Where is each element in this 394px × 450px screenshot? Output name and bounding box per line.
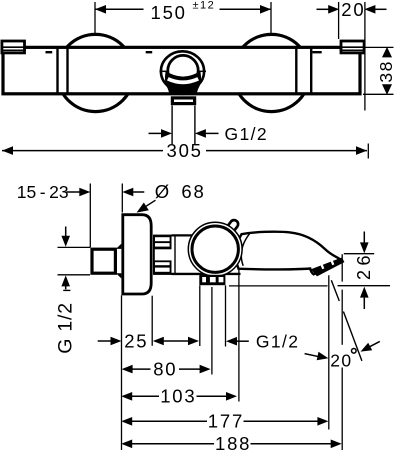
svg-text:20: 20 [330, 351, 352, 371]
valve body (side view) [172, 235, 248, 274]
dimension G1/2 (top view outlet) [149, 124, 269, 144]
G1/2 inlet dimension (left) [55, 227, 91, 354]
svg-text:20: 20 [341, 0, 365, 20]
mixer body bar (top view) [3, 47, 360, 93]
svg-text:G1/2: G1/2 [225, 124, 269, 144]
svg-text:103: 103 [160, 386, 196, 407]
svg-text:188: 188 [215, 433, 251, 450]
dimension 305 [2, 140, 368, 161]
spout aerator stripe band [311, 257, 344, 276]
wall union pipe [92, 249, 115, 273]
dimension 150 +-12 [95, 0, 271, 34]
center ring inner circle [168, 55, 198, 85]
outlet flange (top view) [172, 98, 194, 104]
svg-text:38: 38 [376, 60, 394, 82]
span arrow escutcheon to outlet [153, 337, 199, 346]
wall union pipe shoulder top [116, 244, 121, 249]
left rosette circle (top view) [57, 34, 134, 111]
extension line spout outlet (177) [328, 275, 330, 429]
svg-text:25: 25 [124, 331, 148, 352]
dimension 25 [98, 331, 149, 352]
hand shower outlet (aerator foot) [199, 275, 225, 285]
svg-text:80: 80 [153, 358, 177, 379]
escutcheon (side view) [123, 215, 151, 294]
left end cap box [1, 41, 26, 53]
extension line spout tip (188) [341, 254, 343, 450]
svg-text:150: 150 [151, 2, 187, 23]
seam dash center [146, 51, 153, 53]
angle 20 degrees [305, 280, 380, 370]
extension line outlet left [199, 285, 201, 346]
dimension diameter 38 [363, 47, 394, 95]
escutcheon edge extension line [121, 295, 123, 450]
ring cut line left [160, 70, 168, 72]
svg-text:177: 177 [208, 411, 244, 432]
spout base highlight stripe [168, 79, 198, 83]
right rosette circle (top view) [233, 34, 310, 111]
spout [236, 232, 342, 275]
right handle divider lines [295, 48, 297, 93]
svg-text:305: 305 [167, 140, 203, 161]
dimension 15-23 [17, 182, 145, 248]
dimension 20 [317, 0, 387, 110]
seam dash left [46, 51, 53, 53]
svg-text:G 1/2: G 1/2 [55, 302, 77, 354]
knob outer ring [188, 222, 242, 276]
left handle divider lines [56, 48, 58, 93]
dimension 103 [121, 386, 237, 407]
extension line outlet center [211, 287, 213, 375]
handle lever nub [224, 219, 240, 237]
label diameter 68 with leader [137, 181, 206, 213]
outlet pipe lines (top view) [171, 106, 173, 145]
dimension 188 [121, 433, 342, 450]
svg-text:G1/2: G1/2 [256, 331, 300, 351]
extension line spout joint [238, 268, 240, 402]
svg-text:Ø 68: Ø 68 [155, 181, 206, 202]
svg-text:15 - 23: 15 - 23 [17, 182, 69, 202]
spout joint second line [241, 234, 249, 266]
right end cap box [340, 41, 366, 53]
extension line outlet right [225, 285, 227, 346]
ring cut line right [199, 70, 207, 72]
dimension 80 [122, 358, 211, 379]
label G1/2 (hand shower outlet) [226, 331, 299, 351]
wall union pipe shoulder bottom [116, 273, 121, 278]
knurled nut [153, 235, 172, 275]
knob main circle [192, 226, 238, 272]
center ring outer circle [161, 51, 204, 91]
spout base blob (top view) [165, 71, 201, 95]
aerator stripe gap 2 [331, 258, 334, 264]
aerator stripe gap 1 [321, 263, 324, 269]
seam dash right [312, 51, 321, 53]
dimension 26 [229, 232, 390, 310]
extension line escutcheon front [151, 296, 153, 346]
svg-text:±12: ±12 [193, 0, 216, 12]
dimension 177 [121, 411, 328, 432]
svg-text:26: 26 [354, 251, 374, 280]
